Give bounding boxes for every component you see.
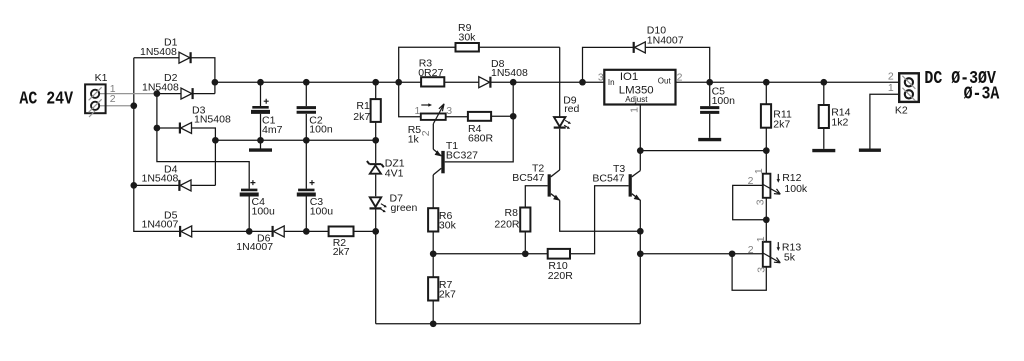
svg-text:1k: 1k (408, 134, 420, 146)
svg-text:0R27: 0R27 (418, 67, 443, 79)
wire D1/D2 cathodes to +raw rail (191, 58, 215, 94)
svg-text:3: 3 (446, 105, 452, 117)
capacitor C1 4m7 (electrolytic) (251, 99, 283, 136)
ground under R14 (812, 149, 835, 152)
transistor T2 BC547 (NPN) (512, 162, 560, 200)
ground under C5 (698, 138, 721, 141)
wire C1 leads (260, 82, 262, 148)
capacitor C2 100n (297, 108, 333, 136)
resistor R10 220R (548, 249, 574, 282)
svg-text:1N5408: 1N5408 (194, 114, 231, 126)
junction node dots (130, 79, 827, 327)
wire K1 pin stubs (gray) (99, 94, 155, 106)
wire D5/D6/R2 negative bias line (y=231) (192, 230, 376, 232)
svg-text:30k: 30k (439, 220, 457, 232)
resistor R3 0R27 (418, 58, 444, 87)
text AC 24V (19, 89, 73, 110)
trimmer R13 5k (748, 236, 802, 273)
capacitor C3 100u (electrolytic) (297, 180, 333, 217)
svg-text:2: 2 (420, 130, 432, 136)
svg-text:4V1: 4V1 (385, 167, 404, 179)
wire T3 emitter down bottom rail corner (639, 200, 641, 324)
resistor R4 680R (468, 112, 494, 145)
diode D10 1N4007 (634, 25, 684, 53)
wire IO1 pin1 adjust line to R11/R12 (640, 105, 766, 151)
wire R13 pin2 wrap to pin3 (732, 254, 766, 290)
svg-text:2: 2 (748, 244, 754, 256)
connector K2 (888, 71, 919, 117)
svg-text:100n: 100n (712, 95, 736, 107)
wire R12 pin1/pin3 (765, 151, 767, 242)
resistor R11 2k7 (761, 104, 792, 130)
svg-text:AC 24V: AC 24V (19, 89, 73, 110)
svg-text:2: 2 (888, 71, 894, 83)
wire net AC phase 1 (K1-1 / D2 anode / D3 cathode / C4+) (157, 94, 249, 189)
svg-text:1N5408: 1N5408 (140, 46, 177, 58)
wire R1 leads (375, 82, 377, 140)
resistor R7 2k7 (428, 277, 456, 300)
resistor R2 2k7 (329, 227, 354, 259)
svg-text:220R: 220R (494, 218, 520, 230)
wire R5 pin3 to R4 (446, 116, 468, 118)
svg-text:K2: K2 (895, 104, 908, 116)
svg-text:1k2: 1k2 (831, 117, 848, 129)
svg-text:2k7: 2k7 (773, 118, 790, 130)
diode D8 1N5408 (479, 58, 528, 88)
wire R5 wiper pin2 down to T1 emitter (432, 124, 434, 150)
svg-text:100u: 100u (310, 205, 334, 217)
svg-text:1: 1 (755, 236, 767, 242)
svg-text:220R: 220R (548, 270, 574, 282)
svg-text:K1: K1 (95, 72, 108, 84)
svg-text:4m7: 4m7 (262, 124, 283, 136)
wire C5 leads (709, 82, 711, 138)
svg-text:680R: 680R (468, 133, 494, 145)
transistor T3 BC547 (NPN) (592, 163, 640, 200)
svg-text:1N5408: 1N5408 (491, 67, 528, 79)
svg-text:5k: 5k (784, 252, 796, 264)
svg-text:1N4007: 1N4007 (142, 218, 179, 230)
wire base line R6/R7 junction to R8 and R10 (y=254) (433, 186, 628, 254)
resistor R8 220R (494, 207, 530, 232)
capacitor C5 100n (700, 86, 735, 113)
wire D9 branch from R9 down to T2 collector (559, 47, 561, 170)
svg-text:1: 1 (888, 82, 894, 94)
svg-text:In: In (608, 78, 615, 87)
wire K2 pin1 to ground (870, 94, 899, 148)
wire D8 sense node vertical / T1 base (445, 82, 514, 162)
resistor R14 1k2 (819, 105, 851, 129)
transistor T1 BC327 (PNP) (433, 140, 478, 175)
svg-text:2: 2 (110, 93, 116, 105)
wire T3 emitter node to R13 pin2 (y=254) (640, 253, 763, 255)
wire R5 branch from raw rail (399, 82, 421, 117)
wire output rail IO1 Out to K2 (y=82) (676, 81, 900, 83)
trimmer R5 1k (408, 103, 453, 145)
wire mid rail (y=140) (215, 139, 375, 141)
diode D5 1N4007 (142, 209, 192, 237)
diode D2 1N5408 (142, 72, 193, 99)
wire R4 right to sense node (491, 115, 513, 117)
svg-text:1N4007: 1N4007 (647, 34, 684, 46)
wire R6 to junction to R7 (432, 232, 434, 324)
resistor R6 30k (428, 208, 456, 231)
svg-text:2: 2 (748, 175, 754, 187)
svg-text:3: 3 (754, 199, 766, 205)
svg-text:100k: 100k (784, 183, 808, 195)
ground under C1 (249, 148, 272, 151)
wire D10 protection loop (583, 47, 710, 82)
wire raw positive rail (y=82) (215, 81, 421, 83)
svg-text:Adjust: Adjust (625, 95, 648, 104)
wire R11 leads (765, 82, 767, 150)
svg-text:1: 1 (753, 168, 765, 174)
svg-text:R8: R8 (505, 207, 519, 219)
resistor R1 2k7 (353, 99, 381, 123)
svg-text:2: 2 (677, 72, 683, 84)
svg-text:Ø-3A: Ø-3A (964, 84, 1000, 105)
svg-text:1: 1 (415, 105, 421, 117)
zener DZ1 4V1 (367, 157, 405, 179)
wire bottom rail (y=324) (376, 323, 641, 325)
svg-text:30k: 30k (459, 31, 477, 43)
wire D3/D4 anodes to mid rail (191, 128, 215, 185)
LED D7 green (370, 193, 418, 214)
capacitor C4 100u (electrolytic) (240, 180, 275, 217)
LED D9 red (554, 95, 580, 129)
wire R9 top loop (399, 47, 560, 82)
diode D4 1N5408 (142, 163, 192, 191)
svg-text:IO1: IO1 (620, 71, 638, 83)
svg-text:green: green (391, 202, 418, 214)
wire C2 leads (305, 82, 307, 140)
resistor R9 30k (456, 22, 479, 52)
wire T1 collector down to R6 (432, 175, 434, 208)
diode D1 1N5408 (140, 36, 191, 63)
wire C4 bottom lead (248, 195, 250, 231)
wire R14 leads (823, 82, 825, 149)
diode D6 1N4007 (236, 226, 284, 253)
wire T2 emitter to T3 emitter (y=231) (560, 200, 641, 231)
svg-text:Out: Out (658, 77, 672, 86)
svg-text:3: 3 (598, 72, 604, 84)
svg-text:2k7: 2k7 (439, 288, 456, 300)
wire R8 leads and T2 base (525, 186, 547, 254)
wire R12 pin2 wrap to pin3 (733, 185, 767, 219)
svg-text:100n: 100n (309, 124, 333, 136)
svg-text:red: red (564, 103, 579, 115)
svg-text:1N5408: 1N5408 (142, 172, 179, 184)
svg-text:BC327: BC327 (446, 150, 478, 162)
svg-text:3: 3 (756, 267, 768, 273)
wire DZ1 / D7 chain down to bottom rail (375, 140, 377, 323)
svg-text:2k7: 2k7 (333, 246, 350, 258)
wire C3 leads (305, 140, 307, 231)
svg-text:BC547: BC547 (592, 173, 624, 185)
trimmer R12 100k (748, 168, 808, 205)
connector K1 (85, 72, 116, 117)
regulator IO1 LM350 (598, 70, 683, 113)
wire net AC phase 2 (K1-2 / D1 anode / D4 cathode / D5 cathode) (134, 58, 181, 232)
diode D3 1N5408 (180, 104, 231, 133)
ground under K2 pin1 (859, 148, 881, 151)
svg-text:100u: 100u (252, 205, 276, 217)
svg-text:1N4007: 1N4007 (236, 241, 273, 253)
wire T3 collector to adjust node (639, 151, 641, 171)
svg-text:BC547: BC547 (512, 172, 544, 184)
text DC 0-30V / 0-3A (924, 69, 1000, 106)
svg-text:1: 1 (628, 107, 640, 113)
wire raw rail R3 to D8 to IO1 In (444, 81, 604, 83)
svg-text:2k7: 2k7 (353, 111, 370, 123)
svg-text:1N5408: 1N5408 (142, 81, 179, 93)
